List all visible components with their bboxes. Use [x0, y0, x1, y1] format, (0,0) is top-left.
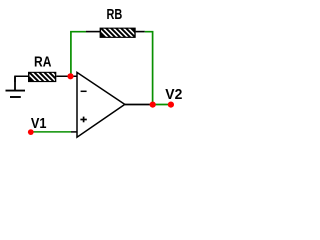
svg-text:RA: RA	[34, 55, 52, 71]
node output junction dot	[150, 102, 156, 108]
wire RA to inverting node	[56, 75, 77, 77]
minus sign (inverting input)	[81, 90, 87, 92]
node V2 terminal dot	[168, 102, 174, 108]
resistor RB	[97, 27, 139, 39]
svg-text:V1: V1	[31, 116, 47, 132]
op-amp U1	[77, 72, 125, 137]
svg-text:V2: V2	[165, 87, 182, 103]
wire feedback right (green)	[145, 32, 153, 105]
node inverting input junction dot	[67, 73, 73, 79]
wire op-amp output	[125, 104, 153, 106]
wire RB right lead	[136, 31, 145, 33]
node V1 terminal dot	[28, 129, 34, 135]
wire RB left lead	[86, 31, 100, 33]
svg-text:RB: RB	[107, 7, 123, 23]
wire feedback left (green)	[71, 32, 86, 77]
wire output to V2 (green)	[153, 104, 171, 106]
wire V1 (green)	[32, 131, 71, 133]
resistor RA	[26, 71, 63, 83]
wire ground to RA	[15, 76, 29, 82]
wire V1 stub to op-amp	[71, 131, 77, 133]
plus sign (non-inverting input)	[80, 117, 86, 123]
ground	[6, 76, 26, 97]
